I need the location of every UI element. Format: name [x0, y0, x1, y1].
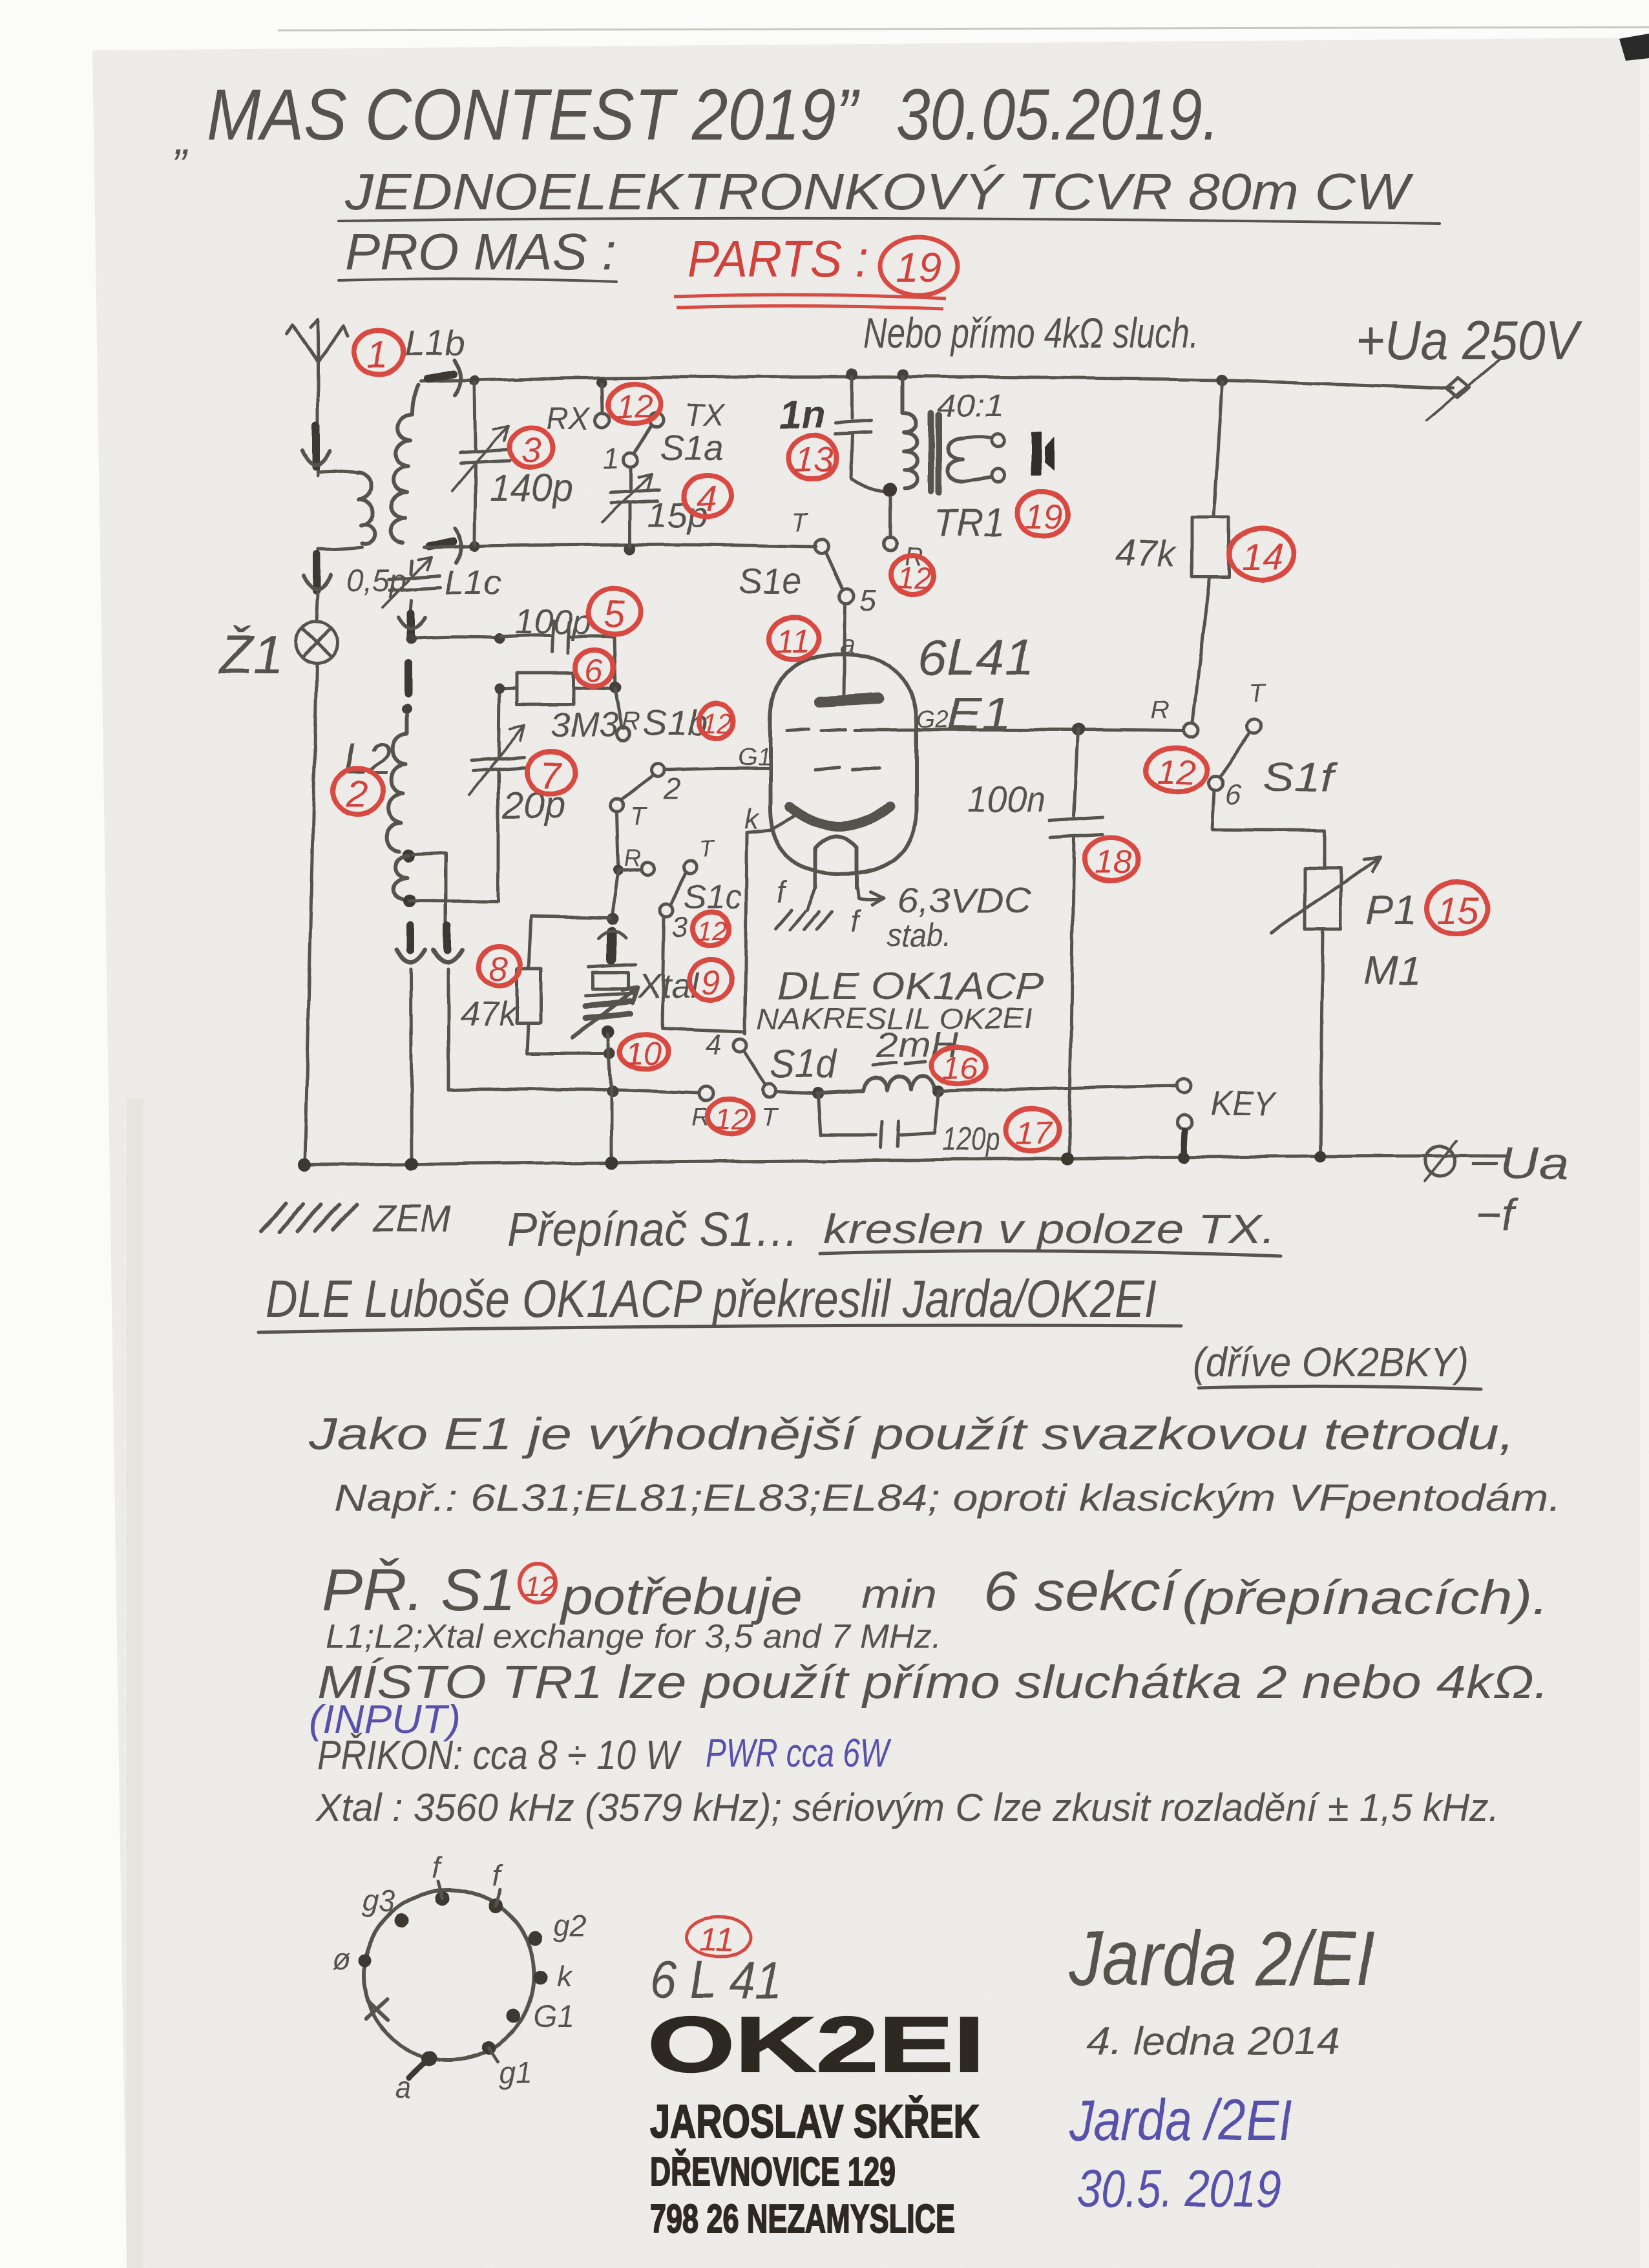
svg-text:potřebuje: potřebuje	[560, 1568, 803, 1625]
svg-text:R: R	[622, 708, 640, 736]
tube socket base diagram circle	[364, 1890, 534, 2061]
node junction rail at Z1	[298, 1159, 311, 1171]
node junction rail at L2	[405, 1157, 418, 1170]
svg-text:TR1: TR1	[933, 501, 1004, 545]
wire S1f pole to P1	[1212, 790, 1325, 868]
node junction feeder at xtal column	[607, 1086, 618, 1097]
svg-text:6: 6	[585, 653, 603, 689]
svg-text:Přepínač S1…: Přepínač S1…	[507, 1202, 799, 1256]
svg-text:T: T	[699, 835, 715, 862]
node L2 bottom blob	[403, 894, 416, 907]
headphone symbol	[1031, 432, 1042, 476]
svg-text:RX: RX	[547, 402, 591, 436]
svg-text:kreslen v poloze TX.: kreslen v poloze TX.	[823, 1206, 1276, 1252]
svg-text:Nebo přímo 4kΩ sluch.: Nebo přímo 4kΩ sluch.	[863, 309, 1199, 357]
transformer TR1 primary	[903, 376, 918, 488]
antenna coupling mark	[312, 425, 320, 467]
svg-text:40:1: 40:1	[937, 389, 1004, 423]
wire anode to S1e pole	[844, 604, 845, 694]
svg-text:12: 12	[525, 1571, 556, 1602]
resistor R 47k (xtal shunt)	[527, 916, 610, 1053]
svg-text:30.05.2019.: 30.05.2019.	[896, 74, 1219, 155]
antenna	[287, 319, 348, 475]
svg-text:12: 12	[1157, 753, 1195, 792]
part number 12 (S1d)	[708, 1099, 753, 1134]
resistor R 47k (14)	[1193, 381, 1222, 722]
svg-text:5: 5	[604, 593, 625, 635]
part number 11 (socket 6L41)	[686, 1917, 751, 1957]
svg-text:JAROSLAV SKŘEK: JAROSLAV SKŘEK	[650, 2095, 980, 2148]
capacitor C 120p bypass	[818, 1095, 938, 1135]
part number 3 (140p)	[509, 428, 553, 468]
wire S1d feeder horizontal	[448, 1089, 699, 1093]
svg-text:+Ua 250V: +Ua 250V	[1356, 310, 1583, 372]
coil L1b	[391, 385, 419, 543]
pin f right	[488, 1899, 503, 1913]
svg-text:3M3: 3M3	[551, 706, 618, 744]
svg-text:L1;L2;Xtal exchange for 3,5 an: L1;L2;Xtal exchange for 3,5 and 7 MHz.	[326, 1618, 941, 1655]
svg-text:7: 7	[540, 755, 563, 797]
svg-text:a: a	[395, 2070, 412, 2104]
node L2 tap blob	[403, 849, 415, 862]
svg-text:140p: 140p	[490, 467, 573, 509]
node junction top rail at 47k R14	[1216, 374, 1228, 386]
node junction rail at 100n	[1061, 1152, 1074, 1165]
scanner line artifact top	[278, 27, 1649, 30]
wire xtal column upper	[613, 870, 618, 914]
part number 2 (L2)	[333, 768, 383, 814]
node junction rail at xtal column	[605, 1156, 618, 1169]
node junction top rail at S1a	[596, 377, 607, 388]
svg-text:6L41: 6L41	[918, 629, 1034, 686]
capacitor C 15p variable	[629, 468, 632, 546]
part number 10 (trimmer)	[620, 1034, 668, 1069]
pin f top	[436, 1891, 450, 1906]
svg-text:Jarda /2EI: Jarda /2EI	[1069, 2088, 1292, 2153]
node junction at L1 column y988	[406, 634, 417, 644]
inductor 2mH choke	[818, 1076, 934, 1093]
svg-text:PRO MAS :: PRO MAS :	[345, 223, 616, 280]
svg-text:16: 16	[942, 1050, 978, 1086]
pin g2	[528, 1931, 542, 1946]
anode bar	[819, 698, 879, 702]
node junction rail at KEY	[1178, 1152, 1190, 1164]
svg-text:47k: 47k	[460, 995, 518, 1034]
wire tank rail 2	[424, 545, 815, 547]
trimmer L1c with 0,5p	[410, 561, 412, 615]
svg-text:Ž1: Ž1	[218, 624, 283, 685]
capacitor C 1n	[851, 376, 885, 492]
part number 18 (100n)	[1084, 837, 1139, 881]
svg-text:k: k	[557, 1959, 573, 1993]
svg-text:R: R	[624, 845, 641, 871]
svg-text:13: 13	[795, 441, 834, 479]
svg-text:798 26 NEZAMYSLICE: 798 26 NEZAMYSLICE	[650, 2197, 955, 2242]
coupling mark above L2	[404, 663, 412, 694]
node junction top rail at 1n	[846, 368, 858, 380]
node junction xtal top	[607, 913, 618, 925]
coupling mark below L1c	[407, 613, 415, 636]
coupling pigtail left L2 winding	[406, 925, 414, 950]
wire L2 bottom to 20p bottom	[410, 901, 498, 901]
svg-text:L1b: L1b	[404, 322, 465, 363]
coil L2 lower section	[394, 856, 409, 899]
node junction top rail at TR1	[897, 369, 909, 381]
svg-text:15: 15	[1437, 890, 1479, 932]
node junction below trimmer	[602, 1025, 614, 1038]
wire heater left to chassis	[807, 888, 815, 910]
part number 11 (tube)	[768, 617, 819, 660]
pin a	[422, 2051, 437, 2066]
svg-text:4. ledna 2014: 4. ledna 2014	[1087, 2019, 1340, 2064]
wire L2 tap to link column	[414, 853, 446, 924]
grid G1 dashes	[815, 768, 879, 770]
part number 9 (Xtal)	[689, 960, 732, 1000]
part number 6 (3M3)	[576, 650, 613, 686]
grid G2 dashes	[787, 730, 845, 731]
svg-text:„: „	[174, 113, 191, 163]
transformer core bars	[931, 414, 939, 492]
wire TR1 bottom to S1e R	[889, 498, 892, 536]
wire S1d pole to KEY	[777, 1092, 814, 1093]
part number 12 (S1a)	[608, 384, 661, 424]
svg-text:G2: G2	[916, 706, 949, 733]
svg-text:30.5. 2019: 30.5. 2019	[1077, 2159, 1281, 2218]
part number 15 (P1)	[1427, 883, 1487, 934]
part number 1 (L1)	[354, 330, 403, 374]
wire top supply rail	[421, 377, 1453, 388]
svg-text:DŘEVNOVICE 129: DŘEVNOVICE 129	[650, 2150, 896, 2194]
node junction S1c R stub	[613, 865, 624, 876]
cathode arc	[790, 806, 890, 826]
node junction top rail at 140p	[470, 375, 480, 386]
coupling mark above xtal	[607, 932, 616, 960]
svg-text:S1f: S1f	[1263, 755, 1338, 800]
svg-text:(dříve OK2BKY): (dříve OK2BKY)	[1193, 1339, 1469, 1385]
svg-text:ZEM: ZEM	[372, 1198, 452, 1240]
svg-text:10: 10	[625, 1036, 662, 1072]
part number 12 (S1b)	[698, 704, 733, 738]
svg-text:2: 2	[664, 772, 681, 805]
svg-text:9: 9	[701, 965, 720, 1002]
wire S1b T down to S1c node	[617, 812, 618, 866]
capacitor C 20p variable	[498, 690, 499, 901]
wire 3M3 node to S1b R	[615, 689, 622, 726]
svg-text:g2: g2	[553, 1909, 586, 1942]
node junction 120p left	[812, 1087, 824, 1099]
svg-text:−f: −f	[1476, 1190, 1519, 1240]
terminal -Ua connector	[1425, 1146, 1455, 1176]
svg-text:PARTS :: PARTS :	[688, 230, 868, 288]
svg-text:12: 12	[616, 388, 653, 426]
switch S1b	[617, 728, 630, 740]
svg-text:4: 4	[697, 478, 717, 519]
svg-text:3: 3	[672, 912, 688, 943]
svg-text:1: 1	[367, 333, 388, 375]
svg-text:5: 5	[859, 584, 876, 618]
svg-text:Jarda 2/EI: Jarda 2/EI	[1069, 1915, 1374, 2002]
svg-text:14: 14	[1242, 536, 1284, 578]
svg-text:100p: 100p	[514, 602, 592, 641]
svg-text:M1: M1	[1363, 947, 1421, 994]
part number 13 (1n)	[789, 436, 837, 479]
svg-text:PŘIKON: cca 8 ÷ 10 W: PŘIKON: cca 8 ÷ 10 W	[317, 1732, 682, 1778]
svg-text:6,3VDC: 6,3VDC	[897, 881, 1032, 920]
svg-text:g3: g3	[362, 1884, 395, 1918]
svg-text:19: 19	[1025, 498, 1062, 536]
svg-text:17: 17	[1016, 1115, 1053, 1151]
wire P1 to ground rail	[1320, 930, 1323, 1155]
coupling mark below L1a	[313, 554, 320, 591]
svg-text:DLE Luboše OK1ACP překreslil J: DLE Luboše OK1ACP překreslil Jarda/OK2EI	[266, 1270, 1157, 1328]
svg-text:PWR cca 6W: PWR cca 6W	[706, 1731, 892, 1776]
svg-text:3: 3	[521, 430, 541, 470]
pin g3	[395, 1913, 409, 1927]
svg-text:2: 2	[346, 773, 367, 815]
svg-text:12: 12	[715, 1102, 748, 1136]
terminal phones top	[992, 434, 1005, 446]
terminal KEY bottom	[1178, 1115, 1192, 1129]
pin G1	[507, 2009, 521, 2023]
part number 17 (120p)	[1006, 1108, 1059, 1151]
svg-text:g1: g1	[499, 2056, 532, 2090]
part number 14 (47k)	[1230, 529, 1294, 580]
switch S1d	[733, 1039, 746, 1052]
svg-text:T: T	[1250, 679, 1267, 708]
part number 5 (100p)	[589, 589, 640, 634]
capacitor xtal trimmer	[585, 1001, 631, 1006]
node junction 3M3/100p right	[609, 682, 621, 693]
wire G1 from S1b pole to tube	[664, 768, 770, 770]
potentiometer P1	[1305, 868, 1341, 930]
coupling pigtail right L2 winding	[443, 925, 451, 950]
svg-text:47k: 47k	[1115, 532, 1178, 574]
wire cathode column k	[745, 832, 747, 1034]
node TR1 bottom blob	[883, 483, 897, 497]
wire xtal column to feeder and rail	[608, 1034, 611, 1162]
svg-text:ø: ø	[332, 1942, 350, 1976]
capacitor C 100p	[501, 635, 615, 686]
wire heater right with arrow	[858, 888, 884, 905]
svg-text:JEDNOELEKTRONKOVÝ TCVR 80m CW: JEDNOELEKTRONKOVÝ TCVR 80m CW	[344, 163, 1414, 220]
pin g1	[481, 2041, 496, 2055]
svg-text:12: 12	[897, 561, 931, 595]
ground chassis f	[775, 910, 832, 929]
lamp Z1	[317, 593, 318, 622]
crystal Xtal	[585, 965, 636, 996]
heater filament U	[815, 836, 857, 888]
terminal R of S1e	[884, 538, 897, 551]
black corner mark top right	[1619, 34, 1649, 61]
capacitor C 140p variable	[475, 383, 476, 545]
terminal KEY top	[1177, 1078, 1191, 1093]
svg-text:G1: G1	[738, 744, 771, 771]
ground symbol ZEM	[261, 1204, 357, 1232]
wire Z1 to ground rail	[305, 664, 317, 1163]
wire antenna to L1a	[318, 471, 357, 474]
wire L1a to Z1 column	[318, 547, 362, 557]
pin empty	[358, 1954, 371, 1967]
wire G2 to right	[854, 730, 1184, 731]
svg-text:PŘ. S1: PŘ. S1	[322, 1557, 516, 1623]
svg-text:OK2EI: OK2EI	[647, 2000, 985, 2088]
node junction 120p right	[932, 1086, 944, 1097]
svg-text:S1a: S1a	[660, 427, 724, 468]
svg-text:120p: 120p	[942, 1120, 1000, 1158]
svg-text:S1e: S1e	[739, 560, 802, 601]
wire tank tap to 100p/3M3 node	[412, 637, 499, 638]
svg-text:T: T	[761, 1103, 779, 1131]
part number 12 (S1e)	[891, 555, 934, 594]
svg-text:12: 12	[697, 916, 727, 947]
svg-text:19: 19	[896, 244, 941, 291]
svg-text:1: 1	[602, 442, 619, 476]
svg-text:100n: 100n	[968, 779, 1045, 819]
switch S1c	[641, 862, 654, 875]
svg-text:MÍSTO TR1 lze použít přímo slu: MÍSTO TR1 lze použít přímo sluchátka 2 n…	[317, 1657, 1549, 1708]
node junction 47k return	[604, 1047, 616, 1059]
svg-text:L1c: L1c	[445, 563, 501, 602]
node junction rail at P1	[1314, 1151, 1326, 1162]
svg-text:6: 6	[1225, 779, 1241, 810]
svg-text:6 sekcí: 6 sekcí	[983, 1560, 1182, 1622]
svg-text:Např.: 6L31;EL81;EL83;EL84; op: Např.: 6L31;EL81;EL83;EL84; oproti klasi…	[334, 1477, 1561, 1519]
part number 12 (S1f)	[1146, 748, 1206, 792]
node junction above L2	[402, 704, 412, 715]
switch S1a	[602, 384, 602, 411]
resistor R 3M3	[499, 688, 614, 689]
svg-text:KEY: KEY	[1211, 1084, 1278, 1123]
svg-text:min: min	[861, 1572, 937, 1617]
svg-text:G1: G1	[534, 1999, 573, 2033]
part number 19 (TR1)	[1017, 492, 1067, 536]
coupling mark top of L1b	[428, 374, 454, 379]
svg-text:Xtal : 3560 kHz (3579 kHz); s: Xtal : 3560 kHz (3579 kHz); sériovým C l…	[315, 1786, 1499, 1829]
svg-text:0,5p: 0,5p	[346, 564, 406, 598]
wire choke to KEY	[938, 1086, 1176, 1091]
part number 8 (47k xtal)	[479, 947, 520, 985]
switch S1f	[1184, 723, 1198, 737]
svg-text:stab.: stab.	[887, 917, 951, 953]
switch S1e	[814, 540, 828, 554]
coil L2	[386, 716, 407, 852]
svg-text:R: R	[1150, 696, 1169, 724]
svg-text:P1: P1	[1366, 887, 1416, 933]
svg-text:a: a	[840, 629, 856, 660]
svg-text:8: 8	[489, 950, 508, 988]
svg-text:1n: 1n	[779, 393, 824, 436]
node junction 3M3 left	[494, 684, 505, 694]
part number 12 (S1c)	[693, 912, 729, 946]
pin k	[534, 1970, 548, 1984]
node junction rail2 at 140p	[470, 541, 480, 551]
svg-text:MAS CONTEST 2019”: MAS CONTEST 2019”	[207, 74, 860, 155]
node junction at 100p left	[494, 633, 505, 644]
svg-text:11: 11	[775, 623, 810, 660]
svg-text:S1d: S1d	[770, 1042, 837, 1087]
tube 6L41 envelope	[770, 655, 916, 874]
svg-text:4: 4	[706, 1029, 721, 1061]
svg-text:12: 12	[702, 708, 732, 739]
svg-text:Jako E1 je výhodnější použít s: Jako E1 je výhodnější použít svazkovou t…	[308, 1409, 1515, 1459]
node junction rail2 at 15p	[624, 543, 636, 554]
transformer TR1 secondary	[949, 438, 963, 482]
svg-text:18: 18	[1095, 844, 1132, 881]
wire k from cathode	[747, 815, 795, 832]
part number 4 (15p)	[684, 476, 731, 517]
node junction G2/100n	[1071, 723, 1084, 736]
terminal phones bottom	[992, 469, 1005, 482]
terminal +Ua 250V connector	[1446, 378, 1469, 398]
svg-text:T: T	[791, 509, 808, 537]
svg-text:T: T	[631, 802, 648, 830]
svg-text:−Ua: −Ua	[1468, 1138, 1569, 1188]
coupling mark bottom of L1b	[429, 541, 454, 546]
pin nc cross	[366, 1999, 388, 2020]
wire S1c pole down and right to k node	[662, 917, 743, 1032]
coil L1a	[357, 474, 375, 544]
capacitor C 100n	[1069, 730, 1078, 1155]
wire left winding to ground rail	[411, 969, 412, 1163]
part number 16 (2mH)	[932, 1047, 986, 1084]
wire ground rail	[304, 1156, 1506, 1165]
part number 7 (20p)	[527, 751, 575, 794]
svg-text:(přepínacích).: (přepínacích).	[1182, 1571, 1549, 1624]
wire right winding down to S1d feeder	[447, 969, 450, 1089]
svg-text:NAKRESLIL OK2EI: NAKRESLIL OK2EI	[757, 1002, 1033, 1035]
